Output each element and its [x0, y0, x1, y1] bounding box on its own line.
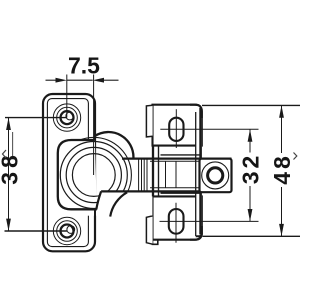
svg-text:7.5: 7.5 — [68, 52, 100, 78]
dimension 48 approx tilde — [294, 153, 297, 160]
dimension 48 bottom anchor line — [203, 235, 301, 237]
pocket left curve — [96, 191, 101, 209]
pocket right curve — [110, 192, 127, 216]
top screw hole bold circle — [61, 111, 74, 124]
dimension 38 approx tilde — [3, 150, 7, 158]
dimension 32 vertical line upper — [249, 129, 251, 152]
top mounting tab — [153, 105, 202, 146]
dimension 48 top anchor line — [202, 104, 300, 106]
arm inner bottom line — [150, 187, 200, 189]
dimension 48 vertical line lower — [281, 187, 283, 236]
side tab with hole — [200, 159, 232, 193]
cup flange fill — [58, 140, 97, 209]
dimension 48 up arrow — [279, 105, 284, 117]
dimension 7.5 right extension line down to cup center — [93, 75, 95, 176]
dimension 38 up arrow — [6, 118, 11, 130]
dimension 32 top anchor line (slot center) — [160, 128, 258, 130]
dimension 38 extra thin line — [12, 132, 14, 156]
top oval slot — [169, 118, 183, 141]
arm channel top line — [122, 158, 232, 160]
bottom tab left edge foot — [153, 240, 158, 245]
bottom screw hole small offset circle — [67, 226, 75, 234]
bottom oval slot — [169, 209, 184, 234]
svg-text:48: 48 — [269, 153, 295, 185]
bracket lower lip line — [161, 192, 200, 194]
dimension 7.5 line right segment with arrow — [103, 79, 119, 81]
dimension 38 top anchor line to hole center — [5, 117, 67, 119]
dimension 7.5 left extension line down to hole center — [66, 75, 68, 118]
top oval vertical crosshair — [175, 109, 177, 148]
left wing plate outer outline — [43, 94, 95, 251]
top screw hole small offset circle — [66, 112, 74, 120]
dimension 32 down arrow — [248, 209, 253, 221]
bracket second vertical — [158, 146, 160, 196]
dimension 7.5 line left segment with arrow — [46, 79, 57, 81]
bottom tab bent flap — [146, 216, 152, 244]
left wing plate inner outline — [47, 99, 88, 247]
arm screw slot vertical 2 — [175, 161, 177, 187]
dimension 38 down arrow — [6, 219, 11, 231]
bottom mounting tab — [153, 196, 202, 239]
side tab outer thin circle — [202, 162, 229, 189]
arm hatch line 3 — [143, 160, 145, 191]
dimension 48 vertical line upper — [281, 105, 283, 153]
bottom pocket white fill — [96, 191, 152, 219]
dimension 32 bottom anchor line (slot center) — [160, 220, 259, 222]
svg-text:32: 32 — [237, 153, 263, 185]
cup ring r33.5 — [60, 142, 127, 209]
bottom screw hole middle circle — [57, 221, 78, 242]
top screw hole middle circle — [57, 107, 78, 128]
plate right edge re-stroke — [94, 210, 96, 218]
arm hatch line 4 — [146, 160, 148, 191]
dimension 32 up arrow — [248, 129, 253, 141]
bottom oval vertical crosshair — [175, 203, 177, 243]
side tab bold ring — [208, 168, 223, 183]
back plate thick right edge — [199, 108, 202, 235]
dimension 38 bottom anchor line to hole center — [5, 230, 68, 232]
arm hatch line 1 — [138, 160, 140, 191]
bottom screw hole bold circle — [61, 225, 74, 238]
cup ring r27.6 — [66, 147, 121, 202]
cup ring r21.4 — [72, 154, 115, 197]
cup flange outline — [58, 140, 97, 209]
dimension 32 vertical line lower — [249, 186, 251, 221]
arm inner top line — [150, 160, 200, 162]
bracket upper lip line — [161, 154, 200, 156]
dimension 38 vertical line — [8, 118, 10, 231]
bottom screw hole countersink circle — [53, 217, 80, 244]
knuckle ball arc — [95, 132, 134, 159]
back plate bottom corner — [196, 233, 202, 236]
white patch left of flange edge — [54, 158, 58, 192]
top tab corner re-stroke — [190, 105, 202, 118]
arm channel bottom line — [101, 190, 231, 192]
svg-text:38: 38 — [0, 151, 22, 185]
back plate thin left edge — [195, 112, 197, 236]
top screw hole countersink circle — [53, 104, 80, 131]
arm hatch line 2 — [141, 160, 143, 191]
white patch below flange bottom edge — [78, 210, 102, 216]
dimension 48 down arrow — [279, 224, 284, 236]
top tab bent flap — [146, 105, 152, 137]
bracket thick vertical — [152, 146, 154, 197]
back plate edge strip — [196, 106, 202, 236]
bottom tab corner re-stroke — [190, 226, 202, 240]
dimension 7.5 line middle segment — [67, 79, 93, 81]
cup ring r37.6 — [56, 137, 131, 212]
arm screw slot vertical 1 — [165, 161, 167, 187]
